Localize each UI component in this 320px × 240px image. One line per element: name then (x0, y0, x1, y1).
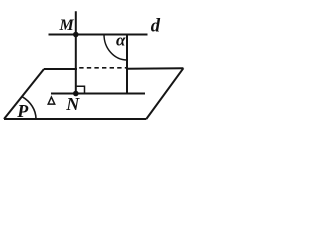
node: plane P right slant edge (146, 68, 183, 119)
node: plane P bottom edge (4, 118, 146, 120)
node: plane P top edge right (127, 67, 183, 70)
node: plane P top edge left (44, 68, 77, 70)
svg-text:P: P (16, 101, 29, 121)
node: plane P left slant edge (4, 69, 44, 119)
node M dot (73, 32, 79, 38)
node: angle P arc (22, 97, 36, 119)
wire: vertical line through M and N (75, 11, 77, 93)
node: Delta symbol (48, 97, 55, 104)
node N dot (73, 91, 79, 97)
svg-text:α: α (116, 31, 126, 50)
wire: line Delta through N (51, 93, 145, 95)
wire: dashed hidden segment (79, 67, 126, 69)
svg-text:d: d (151, 17, 161, 37)
wire: vertical line at alpha (126, 35, 128, 94)
svg-text:M: M (59, 17, 75, 34)
node: angle alpha arc (104, 35, 127, 61)
wire: line d horizontal (49, 34, 148, 36)
svg-text:N: N (65, 94, 80, 114)
node: right angle mark at N (77, 86, 85, 93)
